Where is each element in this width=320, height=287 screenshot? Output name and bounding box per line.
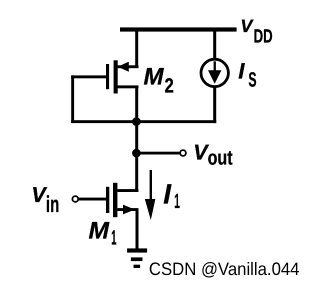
- current arrow I1: [145, 170, 156, 220]
- wire: M2 drain down to output node: [135, 86, 138, 122]
- wire: output node horizontal row: [71, 120, 216, 123]
- svg-text:S: S: [248, 68, 256, 91]
- label I1: [163, 178, 180, 213]
- wire: M1 gate lead: [79, 198, 107, 201]
- junction dot: drain node: [132, 117, 141, 126]
- wire: Vout node down to M1 drain: [135, 153, 138, 192]
- transistor M1: [106, 183, 138, 217]
- current source IS: [201, 59, 228, 86]
- wire: rail down to current source: [213, 29, 216, 60]
- svg-text:in: in: [46, 191, 59, 217]
- svg-text:1: 1: [174, 190, 180, 213]
- label IS: [238, 59, 256, 92]
- svg-text:out: out: [208, 147, 233, 170]
- svg-text:CSDN @Vanilla.044: CSDN @Vanilla.044: [149, 259, 300, 279]
- label VDD: [240, 16, 272, 47]
- label M1: [89, 217, 117, 249]
- terminal: Vin open circle: [72, 196, 78, 202]
- label M2: [144, 64, 174, 98]
- ground: [127, 248, 147, 268]
- svg-text:1: 1: [111, 227, 116, 250]
- wire: feedback gate-to-drain left loop: [71, 75, 74, 123]
- wire: M2 gate lead: [71, 75, 106, 78]
- svg-text:M: M: [144, 64, 165, 91]
- wire: rail down to M2 source: [135, 29, 138, 68]
- label Vout: [193, 140, 232, 169]
- wire: node down to Vout tap: [135, 121, 138, 154]
- junction dot: Vout node: [132, 149, 141, 158]
- svg-text:I: I: [163, 178, 172, 209]
- terminal: Vout open circle: [180, 150, 186, 156]
- wire: Vout stub: [136, 152, 180, 155]
- svg-text:2: 2: [165, 75, 174, 98]
- svg-text:I: I: [238, 59, 245, 84]
- wire: M1 source down to ground: [136, 209, 139, 249]
- wire: VDD top rail: [120, 27, 237, 31]
- svg-text:DD: DD: [254, 26, 273, 47]
- svg-text:M: M: [89, 217, 111, 244]
- svg-text:V: V: [240, 16, 254, 36]
- transistor M2: [106, 60, 139, 93]
- wire: current source down to node row: [213, 86, 216, 123]
- label Vin: [31, 183, 59, 217]
